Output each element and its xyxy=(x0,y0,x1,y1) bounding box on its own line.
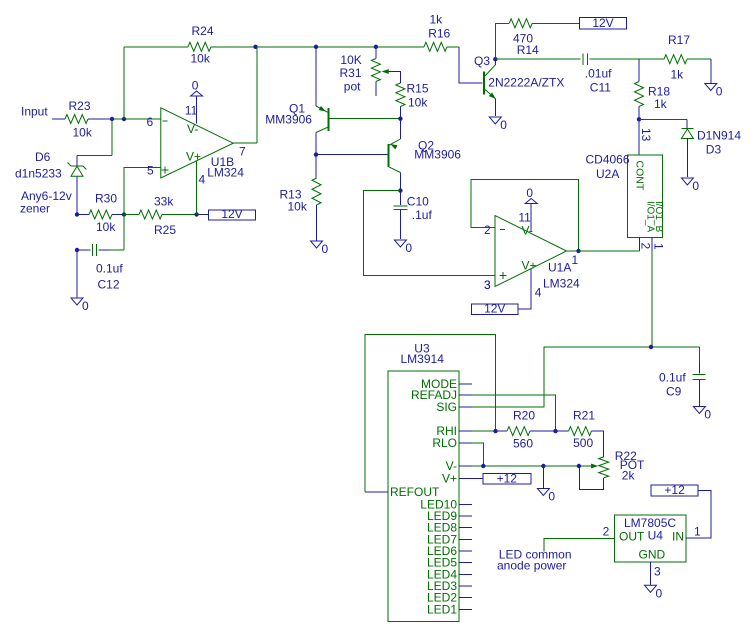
svg-text:R30: R30 xyxy=(95,192,117,206)
svg-text:CONT: CONT xyxy=(633,161,645,191)
svg-text:MM3906: MM3906 xyxy=(414,148,461,162)
svg-text:D3: D3 xyxy=(706,143,722,157)
svg-text:I/O1_B: I/O1_B xyxy=(653,201,664,232)
svg-text:V+: V+ xyxy=(186,150,201,164)
svg-text:C10: C10 xyxy=(407,195,429,209)
svg-text:1: 1 xyxy=(572,253,579,267)
svg-text:0: 0 xyxy=(526,186,533,200)
svg-text:0: 0 xyxy=(716,85,723,99)
svg-text:+12: +12 xyxy=(497,471,518,485)
svg-text:0: 0 xyxy=(500,118,507,132)
svg-text:10k: 10k xyxy=(191,52,211,66)
svg-text:d1n5233: d1n5233 xyxy=(15,167,62,181)
svg-text:0: 0 xyxy=(405,241,412,255)
svg-text:U1A: U1A xyxy=(548,261,571,275)
svg-text:.1uf: .1uf xyxy=(412,208,433,222)
svg-text:1k: 1k xyxy=(430,13,444,27)
svg-text:500: 500 xyxy=(573,436,593,450)
svg-text:0: 0 xyxy=(704,408,711,422)
svg-text:0: 0 xyxy=(192,79,199,93)
svg-text:0.1uf: 0.1uf xyxy=(96,262,123,276)
svg-text:R21: R21 xyxy=(573,409,595,423)
svg-text:10k: 10k xyxy=(73,126,93,140)
svg-text:1: 1 xyxy=(652,243,666,250)
svg-text:SIG: SIG xyxy=(436,400,457,414)
svg-text:0: 0 xyxy=(656,586,663,600)
svg-text:C9: C9 xyxy=(666,385,682,399)
svg-text:R31: R31 xyxy=(340,66,362,80)
svg-text:anode power: anode power xyxy=(497,559,566,573)
svg-text:1: 1 xyxy=(694,525,701,539)
svg-text:R23: R23 xyxy=(69,99,91,113)
svg-text:2k: 2k xyxy=(622,469,636,483)
svg-text:11: 11 xyxy=(518,211,531,225)
svg-text:560: 560 xyxy=(513,437,533,451)
svg-text:12V: 12V xyxy=(484,302,505,316)
svg-text:R20: R20 xyxy=(513,409,535,423)
svg-text:V-: V- xyxy=(187,122,198,136)
svg-text:7: 7 xyxy=(239,145,246,159)
svg-text:R25: R25 xyxy=(154,223,176,237)
svg-text:GND: GND xyxy=(639,548,666,562)
svg-text:2: 2 xyxy=(603,525,610,539)
svg-text:V+: V+ xyxy=(522,259,537,273)
svg-text:LM3914: LM3914 xyxy=(401,352,445,366)
svg-text:11: 11 xyxy=(185,104,198,118)
svg-text:0.1uf: 0.1uf xyxy=(659,371,686,385)
svg-text:4: 4 xyxy=(535,286,542,300)
svg-text:2N2222A/ZTX: 2N2222A/ZTX xyxy=(488,76,564,90)
svg-text:0: 0 xyxy=(322,242,329,256)
svg-text:0: 0 xyxy=(692,179,699,193)
svg-text:10k: 10k xyxy=(288,200,308,214)
svg-text:0: 0 xyxy=(548,490,555,504)
svg-text:R24: R24 xyxy=(192,24,214,38)
svg-text:12V: 12V xyxy=(221,207,242,221)
svg-text:LM324: LM324 xyxy=(207,166,244,180)
svg-text:10K: 10K xyxy=(340,53,361,67)
svg-text:13: 13 xyxy=(639,128,653,142)
svg-text:D1N914: D1N914 xyxy=(697,129,741,143)
svg-text:IN: IN xyxy=(672,530,684,544)
svg-text:RLO: RLO xyxy=(432,436,457,450)
svg-text:MM3906: MM3906 xyxy=(265,113,312,127)
svg-text:U2A: U2A xyxy=(596,167,619,181)
svg-text:.01uf: .01uf xyxy=(585,67,612,81)
svg-text:C12: C12 xyxy=(98,278,120,292)
svg-text:R15: R15 xyxy=(407,82,429,96)
svg-text:Input: Input xyxy=(21,105,48,119)
svg-text:+12: +12 xyxy=(664,483,685,497)
svg-text:5: 5 xyxy=(147,164,154,178)
svg-text:4: 4 xyxy=(199,173,206,187)
svg-text:D6: D6 xyxy=(35,150,51,164)
svg-text:R16: R16 xyxy=(428,27,450,41)
svg-text:1k: 1k xyxy=(654,97,668,111)
svg-text:3: 3 xyxy=(484,278,491,292)
svg-text:33k: 33k xyxy=(154,195,174,209)
svg-text:pot: pot xyxy=(344,80,361,94)
svg-text:10k: 10k xyxy=(96,220,116,234)
svg-text:LED1: LED1 xyxy=(427,602,457,616)
svg-text:3: 3 xyxy=(654,565,661,579)
svg-text:CD4066: CD4066 xyxy=(586,153,630,167)
svg-text:Q3: Q3 xyxy=(474,54,490,68)
svg-text:1k: 1k xyxy=(671,68,685,82)
svg-text:OUT: OUT xyxy=(619,530,645,544)
svg-text:C11: C11 xyxy=(590,81,611,95)
svg-text:V+: V+ xyxy=(442,471,457,485)
svg-text:0: 0 xyxy=(82,299,89,313)
svg-text:10k: 10k xyxy=(408,96,428,110)
svg-text:U4: U4 xyxy=(648,529,664,543)
svg-text:R17: R17 xyxy=(668,33,690,47)
svg-text:R14: R14 xyxy=(517,43,539,57)
svg-text:REFOUT: REFOUT xyxy=(390,485,440,499)
svg-text:zener: zener xyxy=(20,202,50,216)
svg-text:12V: 12V xyxy=(592,16,613,30)
svg-text:2: 2 xyxy=(639,243,653,250)
svg-text:LM324: LM324 xyxy=(543,277,580,291)
svg-text:6: 6 xyxy=(147,115,154,129)
svg-text:2: 2 xyxy=(484,223,491,237)
